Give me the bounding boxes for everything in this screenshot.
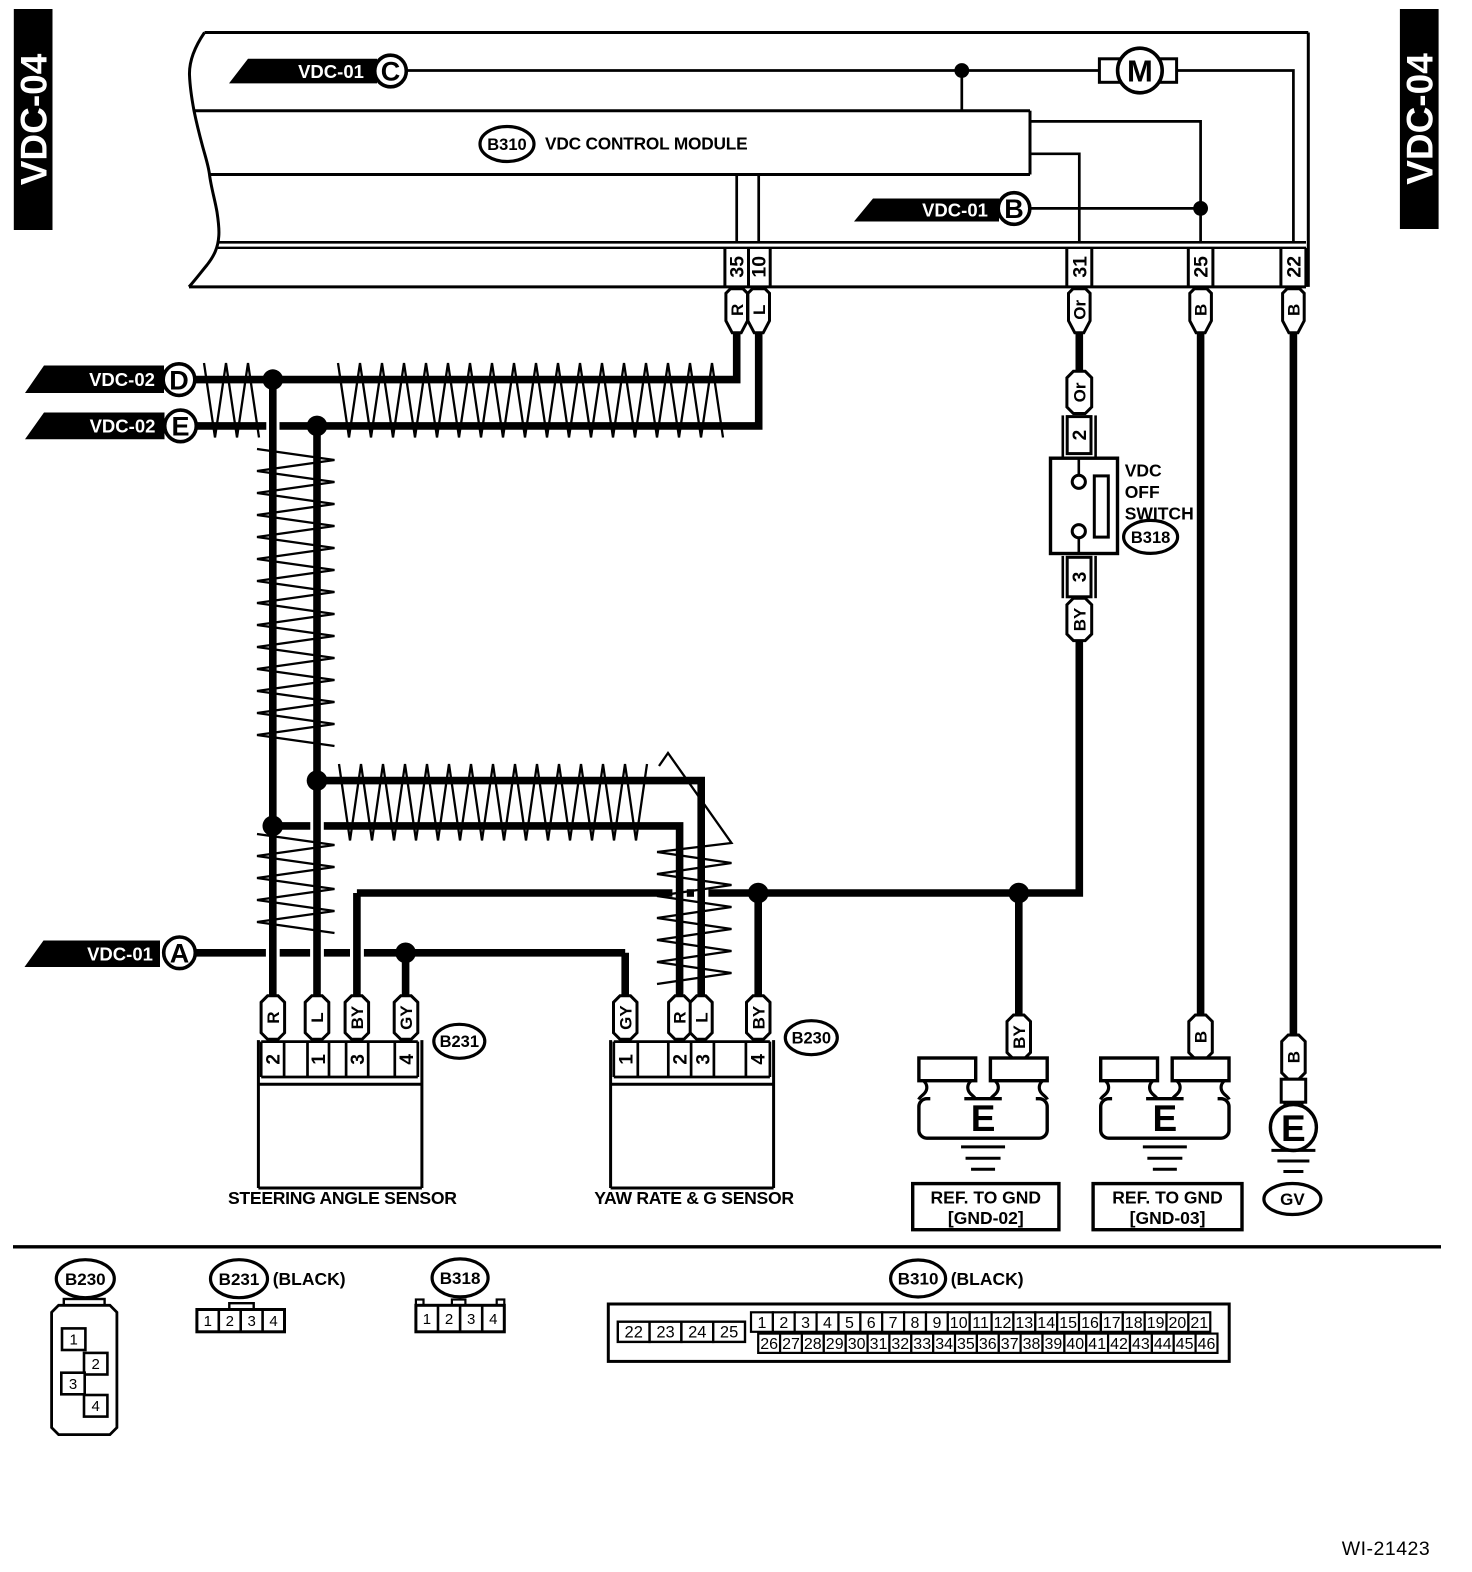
ground hatch at GV: [1271, 1149, 1315, 1152]
svg-text:B310: B310: [487, 136, 526, 154]
svg-text:Or: Or: [1070, 382, 1089, 402]
sensor pod R of B231: [261, 996, 285, 1040]
svg-text:4: 4: [269, 1313, 277, 1330]
svg-text:BY: BY: [348, 1005, 367, 1029]
yaw rate sensor body B230: [609, 1040, 612, 1188]
svg-text:14: 14: [1037, 1315, 1055, 1332]
svg-text:A: A: [170, 939, 190, 969]
twisted pair mark D/E left group: [204, 363, 259, 438]
svg-text:B: B: [1192, 1031, 1211, 1043]
junction net D: [263, 369, 284, 390]
svg-text:4: 4: [92, 1398, 100, 1415]
svg-text:3: 3: [247, 1313, 255, 1330]
connector arrow VDC-02 E: [25, 413, 165, 440]
svg-text:30: 30: [848, 1336, 866, 1353]
svg-text:4: 4: [749, 1054, 770, 1065]
connector pinout B310: [608, 1304, 1229, 1361]
motor M (VDC motor): [1099, 59, 1176, 83]
ground pod BY at GND-02: [1007, 1015, 1031, 1059]
connector arrow VDC-01 C: [229, 59, 377, 84]
sensor pod L of B230: [690, 996, 712, 1040]
svg-text:B: B: [1004, 194, 1024, 224]
svg-text:37: 37: [1001, 1336, 1019, 1353]
page label tab VDC-04 (right): [1400, 9, 1439, 229]
svg-text:2: 2: [226, 1313, 234, 1330]
svg-text:24: 24: [688, 1324, 706, 1342]
svg-text:4: 4: [397, 1054, 418, 1065]
wire net E (L) to pin10: [196, 422, 266, 430]
connector pinout B318: [416, 1300, 424, 1306]
wire net BY to B230 pin4: [754, 893, 762, 997]
svg-text:(BLACK): (BLACK): [273, 1269, 346, 1289]
svg-text:B231: B231: [440, 1033, 479, 1051]
svg-text:42: 42: [1110, 1336, 1128, 1353]
svg-text:D: D: [169, 365, 189, 395]
svg-text:VDC-04: VDC-04: [1400, 53, 1441, 185]
svg-text:R: R: [671, 1011, 690, 1023]
wire net A (GY) horizontal: [195, 949, 266, 957]
ground symbol E GND-02: [919, 1099, 1047, 1139]
svg-text:38: 38: [1023, 1336, 1041, 1353]
svg-text:1: 1: [617, 1054, 638, 1065]
wire net BY horizontal: [357, 889, 673, 897]
module top edge: [205, 31, 1309, 34]
svg-text:3: 3: [693, 1054, 714, 1065]
wire junction to module top: [960, 71, 963, 111]
junction net E: [307, 416, 328, 437]
wire pin35 stub: [735, 175, 738, 244]
colour code pod R at pin column 736.7: [726, 289, 748, 333]
wire pin25 (B) to ground GND-03: [1197, 331, 1205, 1016]
twisted pair mark vertical right pair: [657, 852, 732, 984]
svg-text:34: 34: [935, 1336, 953, 1353]
junction net BY at B230 pin4: [748, 883, 769, 904]
sensor pod BY of B230: [747, 996, 771, 1040]
svg-text:B318: B318: [440, 1269, 481, 1288]
junction net GY: [395, 943, 416, 964]
switch pod BY (pin3 side): [1067, 598, 1092, 640]
svg-text:B230: B230: [65, 1270, 106, 1289]
svg-text:23: 23: [656, 1324, 674, 1342]
svg-text:25: 25: [1191, 256, 1213, 278]
ground pod B at GND-03: [1189, 1015, 1213, 1059]
svg-text:11: 11: [972, 1315, 989, 1332]
svg-text:1: 1: [204, 1313, 212, 1330]
wire net BY to ground GND-02: [1015, 893, 1023, 1016]
svg-text:VDC-01: VDC-01: [87, 943, 153, 964]
wire module to pin25 column: [1030, 121, 1201, 243]
connector label B318 (pinout): [432, 1259, 488, 1297]
svg-text:31: 31: [870, 1336, 888, 1353]
svg-text:E: E: [171, 412, 189, 442]
svg-text:VDC-01: VDC-01: [298, 61, 364, 82]
sensor pod GY of B231: [394, 996, 418, 1040]
junction net L pair: [307, 770, 328, 791]
wire module to pin31 column: [1030, 154, 1079, 244]
wire net D vertical to B231 pin2: [269, 380, 277, 997]
twisted pair corner transition: [657, 753, 732, 852]
wire from C to motor: [406, 69, 1100, 72]
pin 25 cell of B310: [1187, 248, 1190, 287]
junction net BY at ground: [1009, 883, 1030, 904]
module lower edge: [219, 241, 1306, 244]
svg-text:6: 6: [867, 1315, 876, 1332]
svg-text:REF. TO GND: REF. TO GND: [1112, 1188, 1223, 1208]
svg-text:10: 10: [749, 256, 771, 278]
pin 31 cell of B310: [1065, 248, 1068, 287]
svg-text:1: 1: [423, 1311, 431, 1328]
twisted pair mark mid horizontal pair: [339, 764, 647, 841]
svg-text:B: B: [1285, 1051, 1304, 1063]
wire motor to pin22 column: [1177, 71, 1294, 244]
svg-text:E: E: [1153, 1098, 1178, 1139]
connector label B230: [785, 1021, 837, 1055]
connector pinout B231: [229, 1303, 253, 1309]
svg-text:40: 40: [1066, 1336, 1084, 1353]
svg-text:12: 12: [994, 1315, 1012, 1332]
wire pin22 (B) to ground E: [1290, 331, 1298, 1036]
colour code pod Or at pin column 1079.3: [1069, 289, 1091, 333]
connector strip top line: [218, 247, 1306, 249]
junction on pin25 column: [1193, 201, 1208, 216]
svg-text:41: 41: [1088, 1336, 1106, 1353]
svg-text:WI-21423: WI-21423: [1342, 1538, 1431, 1560]
VDC control module outline (torn left edge): [189, 33, 219, 287]
svg-text:L: L: [308, 1012, 327, 1022]
wire net BY from B231 pin3: [353, 893, 361, 997]
svg-text:YAW RATE & G SENSOR: YAW RATE & G SENSOR: [594, 1188, 794, 1208]
svg-text:5: 5: [845, 1315, 854, 1332]
svg-text:3: 3: [1070, 572, 1091, 583]
sensor pod GY of B230: [614, 996, 638, 1040]
svg-text:(BLACK): (BLACK): [951, 1269, 1024, 1289]
pin 22 cell of B310: [1279, 248, 1282, 287]
svg-text:M: M: [1127, 54, 1153, 89]
svg-text:VDC-02: VDC-02: [89, 369, 155, 390]
ground pod B at GV ground: [1282, 1035, 1306, 1079]
switch pin2 bracket: [1062, 415, 1065, 458]
svg-text:33: 33: [913, 1336, 931, 1353]
svg-text:31: 31: [1069, 256, 1091, 278]
wire net D (R) to pin35: [195, 331, 737, 380]
svg-text:39: 39: [1045, 1336, 1063, 1353]
svg-text:3: 3: [348, 1054, 369, 1065]
sensor pod BY of B231: [345, 996, 369, 1040]
twisted pair mark vertical left pair lower: [257, 834, 335, 933]
wire net BY to VDC OFF switch pin3: [708, 640, 1079, 893]
svg-text:1: 1: [309, 1054, 330, 1065]
svg-text:18: 18: [1125, 1315, 1143, 1332]
svg-text:35: 35: [957, 1336, 975, 1353]
connector arrow VDC-01 B: [854, 199, 999, 222]
svg-text:E: E: [1281, 1108, 1306, 1149]
connector arrow VDC-02 D: [25, 366, 164, 394]
connector label B231: [434, 1024, 485, 1058]
svg-text:2: 2: [263, 1054, 284, 1065]
svg-text:1: 1: [70, 1332, 78, 1349]
switch pin3 bracket: [1062, 556, 1065, 598]
svg-text:B318: B318: [1131, 529, 1170, 547]
svg-text:Or: Or: [1070, 299, 1089, 319]
svg-text:43: 43: [1132, 1336, 1150, 1353]
svg-text:22: 22: [1283, 256, 1305, 278]
switch B318 body: [1051, 458, 1118, 553]
svg-text:R: R: [264, 1011, 283, 1023]
junction on C wire: [954, 63, 969, 78]
svg-text:4: 4: [489, 1311, 497, 1328]
svg-text:4: 4: [823, 1315, 832, 1332]
svg-text:B: B: [1192, 304, 1211, 316]
pin 35 cell of B310: [723, 248, 726, 287]
module right edge: [1307, 33, 1310, 287]
svg-text:22: 22: [625, 1324, 643, 1342]
svg-text:20: 20: [1169, 1315, 1187, 1332]
svg-text:13: 13: [1015, 1315, 1033, 1332]
wire from B to pin25 column: [1030, 207, 1200, 210]
svg-text:[GND-03]: [GND-03]: [1130, 1208, 1206, 1228]
svg-text:VDC CONTROL MODULE: VDC CONTROL MODULE: [545, 134, 748, 154]
svg-text:GV: GV: [1280, 1190, 1305, 1209]
svg-text:BY: BY: [1070, 607, 1089, 631]
module inner box top (B310): [194, 109, 1030, 112]
svg-text:BY: BY: [749, 1005, 768, 1029]
svg-text:B310: B310: [898, 1270, 939, 1289]
section separator line: [13, 1245, 1441, 1248]
ground label GV: [1264, 1184, 1321, 1215]
colour code pod L at pin column 758.7: [748, 289, 770, 333]
svg-text:2: 2: [92, 1356, 100, 1373]
svg-text:VDC: VDC: [1125, 460, 1162, 480]
svg-text:B: B: [1285, 304, 1304, 316]
svg-text:GY: GY: [397, 1005, 416, 1030]
wire pin31 to switch pin2: [1076, 331, 1084, 371]
connector label B318: [1124, 520, 1178, 553]
svg-text:19: 19: [1147, 1315, 1165, 1332]
page label tab VDC-04 (left): [14, 9, 53, 230]
svg-text:B231: B231: [219, 1270, 260, 1289]
connector label B310 with name: [480, 127, 534, 162]
steering angle sensor body B231: [257, 1040, 260, 1188]
svg-text:OFF: OFF: [1125, 482, 1160, 502]
switch pod Or (pin2 side): [1067, 371, 1092, 413]
pin 10 cell of B310: [747, 248, 750, 287]
connector strip bottom line: [189, 285, 1306, 288]
sensor pod R of B230: [669, 996, 691, 1040]
svg-text:VDC-01: VDC-01: [922, 200, 988, 221]
connector label B231 (pinout): [211, 1260, 268, 1298]
wire net L to B230 pin3: [317, 781, 701, 997]
svg-text:7: 7: [889, 1315, 898, 1332]
svg-text:25: 25: [720, 1324, 738, 1342]
svg-text:BY: BY: [1010, 1025, 1029, 1049]
colour code pod B at pin column 1200.6: [1190, 289, 1212, 333]
svg-text:9: 9: [932, 1315, 941, 1332]
connector label B230 (pinout): [56, 1260, 114, 1298]
svg-text:B230: B230: [792, 1030, 831, 1048]
svg-text:16: 16: [1081, 1315, 1099, 1332]
svg-text:21: 21: [1190, 1315, 1208, 1332]
svg-text:3: 3: [467, 1311, 475, 1328]
wire pin10 stub: [757, 175, 760, 244]
svg-text:GY: GY: [616, 1005, 635, 1030]
svg-text:2: 2: [779, 1315, 788, 1332]
svg-text:3: 3: [801, 1315, 810, 1332]
svg-text:STEERING ANGLE SENSOR: STEERING ANGLE SENSOR: [228, 1188, 457, 1208]
wire net E vertical to B231 pin1: [313, 426, 321, 997]
module inner box bottom: [210, 173, 1031, 176]
module inner box right edge: [1029, 111, 1032, 175]
svg-text:L: L: [750, 305, 769, 315]
svg-text:45: 45: [1176, 1336, 1194, 1353]
svg-text:3: 3: [69, 1376, 77, 1393]
svg-text:L: L: [692, 1012, 711, 1022]
svg-text:26: 26: [760, 1336, 778, 1353]
svg-text:R: R: [728, 304, 747, 316]
svg-text:1: 1: [757, 1315, 766, 1332]
svg-text:REF. TO GND: REF. TO GND: [931, 1188, 1042, 1208]
svg-text:44: 44: [1154, 1336, 1172, 1353]
svg-text:17: 17: [1103, 1315, 1121, 1332]
ground circle E (GV): [1270, 1105, 1316, 1151]
svg-text:10: 10: [950, 1315, 968, 1332]
wire net GY to B231 pin4: [402, 953, 410, 997]
twisted pair mark vertical left pair upper: [257, 449, 335, 746]
svg-text:2: 2: [670, 1054, 691, 1065]
colour code pod B at pin column 1293.4: [1283, 289, 1305, 333]
connector label B310 (pinout): [891, 1260, 946, 1297]
svg-text:29: 29: [826, 1336, 844, 1353]
ground symbol E GND-03: [1101, 1099, 1229, 1139]
svg-text:C: C: [381, 57, 401, 87]
connector arrow VDC-01 A: [25, 941, 161, 968]
sensor pod L of B231: [305, 996, 329, 1040]
svg-text:36: 36: [979, 1336, 997, 1353]
svg-text:15: 15: [1059, 1315, 1077, 1332]
connector pinout B230: [52, 1305, 117, 1434]
svg-text:E: E: [971, 1098, 996, 1139]
svg-text:46: 46: [1198, 1336, 1216, 1353]
twisted pair mark D/E main: [338, 363, 723, 438]
svg-text:VDC-04: VDC-04: [13, 53, 54, 185]
svg-text:32: 32: [891, 1336, 909, 1353]
svg-text:28: 28: [804, 1336, 822, 1353]
svg-text:2: 2: [1070, 430, 1091, 441]
junction net R pair: [263, 816, 284, 837]
svg-text:35: 35: [727, 256, 749, 278]
wire net R to B230 pin2: [273, 822, 311, 830]
svg-text:[GND-02]: [GND-02]: [948, 1208, 1024, 1228]
svg-text:VDC-02: VDC-02: [90, 416, 156, 437]
svg-text:27: 27: [782, 1336, 800, 1353]
svg-text:8: 8: [911, 1315, 920, 1332]
svg-text:2: 2: [445, 1311, 453, 1328]
wire net GY to B230 pin1: [621, 953, 629, 997]
ground connector rect at GV ground: [1281, 1079, 1306, 1102]
